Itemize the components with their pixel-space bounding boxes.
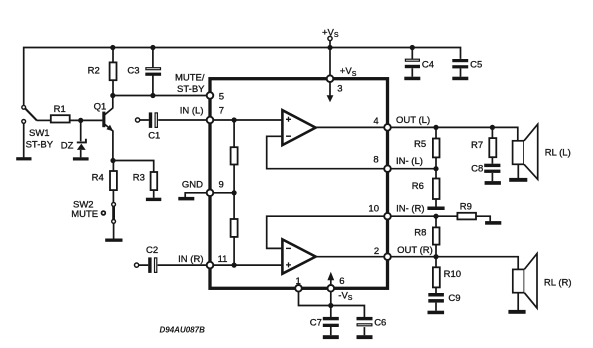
wire SW1 bottom to ground [23, 123, 25, 157]
pin 6 circle [328, 285, 335, 292]
capacitor C5 [452, 59, 468, 68]
wire R8 leads [435, 216, 437, 257]
capacitor C3 [145, 68, 161, 76]
op-amp U1B [282, 239, 315, 273]
resistor R1 [51, 115, 70, 122]
wire out R to speaker [388, 257, 519, 270]
resistor R4 [110, 171, 117, 190]
ground C6 [357, 335, 373, 339]
junction pin 7 bias [232, 117, 237, 122]
wire C6 ground lead [363, 327, 365, 335]
junction R1 DZ [78, 118, 83, 123]
svg-text:8: 8 [373, 154, 378, 165]
ground speaker RL R [508, 310, 525, 314]
svg-text:IN (L): IN (L) [180, 106, 204, 117]
resistor R6 [433, 179, 440, 200]
resistor R8 [433, 227, 440, 244]
terminal IN R [135, 263, 139, 267]
svg-text:R6: R6 [412, 181, 424, 192]
svg-text:D94AU087B: D94AU087B [160, 326, 206, 335]
svg-text:C6: C6 [374, 318, 386, 329]
op-amp U1B minus input sign [286, 247, 291, 249]
wire +Vs terminal to pin 3 [329, 41, 331, 79]
svg-text:C4: C4 [422, 59, 434, 70]
svg-text:4: 4 [373, 116, 378, 127]
junction out L R7 [490, 125, 495, 130]
svg-text:C2: C2 [146, 245, 158, 256]
wire C8 ground lead [491, 173, 493, 181]
svg-text:MUTE: MUTE [71, 209, 98, 220]
internal -Vs arrow at pin 6 [327, 272, 334, 287]
svg-text:7: 7 [219, 106, 224, 117]
wire SW1 lever to R1 [37, 119, 51, 121]
svg-text:R1: R1 [54, 104, 66, 115]
wire emitter node to R3 [113, 161, 154, 173]
wire R10 leads [435, 257, 437, 293]
wire C5 ground lead [412, 68, 460, 77]
wire out L to speaker [388, 127, 518, 140]
wire R5 leads [435, 127, 437, 168]
switch SW1 [22, 105, 37, 123]
ground SW1 [16, 157, 31, 160]
junction in- R R8 R9 [433, 214, 438, 219]
pin 2 circle [384, 253, 391, 260]
pin 3 circle [327, 75, 334, 82]
internal resistor A [231, 147, 238, 164]
svg-text:1: 1 [296, 276, 301, 287]
ground pin 9 [178, 197, 194, 201]
wire DZ leads [80, 120, 82, 157]
resistor R2 [110, 62, 117, 80]
svg-text:OUT (R): OUT (R) [397, 245, 433, 256]
svg-text:11: 11 [218, 254, 228, 265]
wire R4 leads [112, 161, 114, 203]
ground C7 [323, 335, 339, 339]
resistor R3 [151, 172, 158, 190]
junction node mute R2 [110, 93, 115, 98]
junction Q1 emitter R4 [110, 158, 115, 163]
svg-text:Q1: Q1 [94, 102, 107, 113]
svg-text:ST-BY: ST-BY [177, 84, 205, 95]
wire C2 input [139, 264, 283, 266]
ground C4 [404, 77, 420, 81]
resistor R5 [433, 139, 440, 158]
junction in- L R5 R6 [433, 166, 438, 171]
svg-text:IN- (R): IN- (R) [396, 203, 425, 214]
pin 4 circle [384, 124, 391, 131]
svg-text:R8: R8 [414, 228, 426, 239]
wire C1 input [140, 119, 210, 121]
svg-text:+VS: +VS [322, 27, 339, 39]
ground SW2 [105, 239, 122, 242]
op-amp U1A [282, 110, 315, 145]
terminal IN L [136, 118, 140, 122]
wire internal bias vertical [233, 120, 235, 265]
svg-text:R10: R10 [444, 269, 461, 280]
speaker RL R [513, 254, 537, 309]
junction pin 9 bias [232, 190, 237, 195]
svg-text:2: 2 [374, 246, 379, 257]
resistor R9 [457, 213, 476, 220]
wire C3 leads [152, 48, 154, 96]
svg-text:R9: R9 [460, 202, 472, 213]
capacitor C9 [428, 293, 444, 303]
svg-text:SW1: SW1 [29, 128, 50, 139]
wire pin 10 line [388, 215, 458, 217]
svg-text:6: 6 [339, 276, 344, 287]
svg-text:RL (L): RL (L) [545, 147, 571, 158]
svg-text:IN- (L): IN- (L) [396, 156, 423, 167]
junction out R R10 [433, 254, 438, 259]
capacitor C4 [405, 59, 420, 68]
wire SW2 to ground [113, 223, 115, 238]
svg-text:10: 10 [368, 204, 379, 215]
junction -Vs node [328, 303, 333, 308]
wire op-amp B feedback to pin 10 [267, 216, 388, 248]
wire R3 to ground [153, 190, 155, 198]
wire R6 leads [435, 169, 437, 207]
pin 9 circle [207, 190, 214, 197]
wire C4 lead [411, 48, 413, 59]
wire op-amp A output to pin 4 [316, 126, 388, 128]
zener diode DZ [77, 139, 86, 150]
wire R9 to ground [476, 216, 490, 221]
capacitor C6 [357, 317, 373, 326]
junction pin 11 bias [232, 263, 237, 268]
svg-text:3: 3 [337, 84, 342, 95]
svg-text:C9: C9 [448, 293, 460, 304]
svg-text:R2: R2 [88, 66, 100, 77]
ground R3 [146, 198, 161, 201]
wire R2 leads [112, 48, 114, 96]
wire top +Vs rail [24, 48, 461, 106]
svg-text:C5: C5 [470, 59, 482, 70]
pin 5 circle [207, 92, 214, 99]
switch SW2 [102, 203, 116, 224]
op-amp U1A plus input sign [286, 117, 291, 122]
junction out L R5 [433, 125, 438, 130]
junction rail C3 [150, 45, 155, 50]
wire speaker R to ground [517, 293, 519, 310]
svg-text:DZ: DZ [61, 140, 74, 151]
svg-text:R4: R4 [92, 172, 104, 183]
svg-text:C8: C8 [471, 163, 483, 174]
IC U1 outline [210, 79, 388, 289]
junction rail R2 [110, 45, 115, 50]
junction rail C4 [410, 45, 415, 50]
ground speaker RL L [509, 178, 527, 182]
svg-text:+VS: +VS [340, 66, 357, 78]
capacitor C7 [323, 317, 339, 327]
internal +Vs arrow at pin 3 [327, 80, 334, 102]
op-amp U1B plus input sign [286, 262, 291, 267]
wire pin 9 GND to ground [185, 193, 234, 197]
wire pin 1 pin 6 to -Vs node [299, 288, 331, 305]
wire C6 branch [331, 306, 365, 318]
resistor R10 [433, 267, 440, 287]
svg-text:C1: C1 [148, 131, 160, 142]
pin 7 circle [207, 117, 214, 124]
svg-text:MUTE/: MUTE/ [175, 73, 205, 84]
pin 10 circle [384, 213, 391, 220]
wire C7 leads [330, 306, 332, 336]
wire Q1 emitter down [105, 124, 113, 160]
wire C9 ground lead [435, 303, 437, 311]
svg-text:5: 5 [219, 91, 224, 102]
wire op-amp B output to pin 2 [316, 256, 388, 258]
junction node mute C3 [150, 93, 155, 98]
ground C8 [485, 181, 501, 185]
speaker RL L [513, 124, 538, 179]
capacitor C1 [149, 112, 158, 128]
svg-text:C7: C7 [310, 318, 322, 329]
wire R1 to Q1 base [70, 119, 103, 121]
transistor Q1 [102, 112, 113, 132]
capacitor C2 [148, 257, 157, 273]
svg-text:R5: R5 [414, 139, 426, 150]
internal resistor B [231, 219, 238, 237]
wire Q1 collector to node [105, 96, 113, 115]
svg-text:C3: C3 [127, 66, 139, 77]
pin 1 circle [295, 285, 302, 292]
wire mute/st-by node to pin 5 [113, 95, 210, 97]
ground R9 [485, 221, 501, 225]
svg-text:ST-BY: ST-BY [26, 139, 54, 150]
svg-text:9: 9 [219, 179, 224, 190]
svg-text:R7: R7 [471, 140, 483, 151]
svg-text:OUT (L): OUT (L) [396, 115, 430, 126]
wire op-amp A feedback to pin 8 [267, 136, 388, 168]
wire pin 8 line [388, 168, 437, 170]
pin 8 circle [384, 165, 391, 172]
svg-text:-VS: -VS [338, 290, 353, 302]
resistor R7 [489, 138, 496, 157]
wire R7 leads [491, 127, 493, 163]
svg-text:RL (R): RL (R) [544, 277, 572, 288]
svg-text:GND: GND [182, 179, 203, 190]
ground R6 [427, 207, 444, 211]
pin 11 circle [207, 262, 214, 269]
ground C5 [452, 77, 468, 81]
wire speaker L to ground [517, 164, 519, 178]
svg-text:R3: R3 [133, 172, 145, 183]
svg-text:IN (R): IN (R) [178, 254, 203, 265]
capacitor C8 [484, 164, 500, 173]
ground DZ [73, 157, 89, 160]
op-amp U1A minus input sign [286, 135, 291, 137]
junction rail +Vs [327, 45, 332, 50]
wire pin 7 to op-amp plus input [210, 119, 282, 121]
ground C9 [428, 311, 445, 315]
terminal +Vs [328, 36, 332, 40]
